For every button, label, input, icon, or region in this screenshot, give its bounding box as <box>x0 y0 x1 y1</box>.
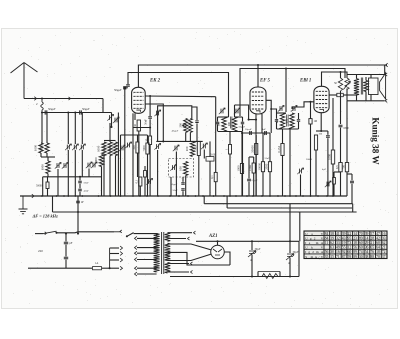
wire R9 up <box>262 133 264 162</box>
primary tap arrow 0 <box>135 236 137 240</box>
capacitor C7 <box>247 179 251 181</box>
junction EBL1 grid feed <box>309 101 311 103</box>
junction gnd rail cap2 <box>289 275 291 277</box>
capacitor IFT1 right <box>241 122 244 124</box>
wire anode to OT <box>343 94 354 96</box>
resistor R18 <box>345 163 348 172</box>
antenna A <box>11 63 38 99</box>
svg-text:55: 55 <box>342 246 346 250</box>
svg-text:1000: 1000 <box>34 144 38 151</box>
wire C10 down <box>327 138 329 196</box>
wire output top line <box>347 74 385 76</box>
svg-text:56: 56 <box>353 246 357 250</box>
svg-text:1000: 1000 <box>103 145 107 152</box>
selector contact arrow 2 <box>120 258 122 262</box>
svg-text:37: 37 <box>382 255 386 259</box>
trimmer IFT1 a <box>221 109 223 114</box>
wire primary tap 5 <box>137 273 157 275</box>
ground symbol chassis <box>19 196 28 214</box>
variable capacitor Cg1 tuning <box>81 145 83 150</box>
wire selector stub 1 <box>110 253 119 255</box>
junction bus 19 <box>223 195 225 197</box>
svg-text:7000: 7000 <box>142 145 146 152</box>
svg-text:60: 60 <box>359 241 363 245</box>
wire drop d2 <box>74 150 76 196</box>
svg-text:87: 87 <box>342 255 346 259</box>
svg-text:12: 12 <box>348 246 352 250</box>
wire right group feed <box>109 123 111 142</box>
trimmer CT6 <box>128 143 130 148</box>
wire tertiary bus <box>227 207 352 209</box>
wire HT bottom tap <box>168 254 212 261</box>
capacitor C17 50nF <box>148 117 152 119</box>
wire selector stub 2 <box>110 259 119 261</box>
heater arrow b <box>188 237 190 240</box>
svg-text:S mA/V: S mA/V <box>305 255 324 259</box>
svg-text:0,1µF: 0,1µF <box>252 179 259 182</box>
padder CP1 <box>175 146 177 151</box>
junction on RF rail 1 <box>41 111 43 113</box>
trimmer IFT2 a <box>280 106 282 111</box>
svg-text:28: 28 <box>370 237 374 241</box>
wire IFT2 capL bot <box>276 122 278 129</box>
wire field right <box>279 272 281 277</box>
wire EF5 cathode <box>255 114 257 196</box>
wire IFT2 sec to EBL1 <box>292 102 314 109</box>
wire IFT2 bottom drop <box>289 129 291 196</box>
wire AZ1 cathode up <box>217 241 219 245</box>
wire IFT1 capL top <box>217 117 219 122</box>
wire IFT1 capR to bus <box>242 132 244 197</box>
wire R27 down <box>333 184 335 196</box>
svg-text:300: 300 <box>178 123 182 128</box>
wire R15 down <box>340 91 342 124</box>
junction bus 24 <box>261 195 263 197</box>
wire C16 up <box>289 251 291 253</box>
wire anode to IFT2 <box>271 109 276 113</box>
wire R12 down <box>315 150 317 196</box>
wire heater line <box>53 211 357 213</box>
wire R6 down <box>198 156 200 197</box>
junction bus 16 <box>195 195 197 197</box>
wire EK2 grid top <box>125 87 128 89</box>
wire pot down <box>346 89 348 101</box>
selector dot <box>109 267 111 269</box>
tube EK2 <box>132 87 146 113</box>
heater arrow a <box>194 231 196 234</box>
primary tap arrow 4 <box>135 266 137 270</box>
svg-text:72: 72 <box>382 250 386 254</box>
wire EK2 grid drop <box>124 89 126 196</box>
wire IFT1 bottom drop b <box>229 154 231 196</box>
wire long drop 118 <box>117 113 119 197</box>
wire R1 top <box>47 177 49 182</box>
wire IFT1 top link R <box>235 116 243 118</box>
capacitor C11 6300 <box>339 125 343 127</box>
capacitor IFT2 left <box>275 120 278 122</box>
svg-text:84: 84 <box>325 237 329 241</box>
junction bus 32 <box>317 195 319 197</box>
junction row2 cap <box>79 176 81 178</box>
svg-text:50nF: 50nF <box>173 189 179 192</box>
svg-text:21: 21 <box>382 246 386 250</box>
wire primary tap 3 <box>137 259 157 261</box>
wire L4 bottom lead <box>109 156 111 197</box>
wire OT sec top lead <box>365 77 367 80</box>
variable capacitor Cg4b <box>121 146 123 151</box>
transformer T1 secondary heater AZ1 <box>165 233 171 242</box>
wire speaker top lead <box>370 75 372 79</box>
grid cap terminal EK2 <box>123 86 126 89</box>
junction B+ x290 <box>289 240 291 242</box>
wire C17 mid <box>149 119 151 136</box>
coil IFT1 secondary 100 <box>232 117 236 132</box>
junction bus 20 <box>229 195 231 197</box>
wire heater d <box>168 271 190 273</box>
svg-text:49: 49 <box>336 246 340 250</box>
primary tap arrow 2 <box>135 251 137 255</box>
junction bus 0 <box>41 195 43 197</box>
junction grid bias b <box>255 119 257 121</box>
wire input corner <box>102 99 104 113</box>
svg-text:70: 70 <box>359 232 363 236</box>
junction bus 5 <box>81 195 83 197</box>
coil L11 osc 300 <box>184 118 188 132</box>
wire col 176 <box>175 152 177 197</box>
wire IFT1 feed link <box>224 116 229 118</box>
coil L3 1000 <box>102 142 106 156</box>
wire R25 down <box>282 156 284 197</box>
svg-text:19: 19 <box>342 241 346 245</box>
heater arrow d <box>191 270 193 273</box>
wire R27 link <box>334 171 341 173</box>
wire R7 down <box>241 174 243 197</box>
wire R5 down <box>139 186 141 196</box>
svg-text:AZ1: AZ1 <box>208 234 218 239</box>
coil L10 100 <box>190 141 194 156</box>
arrow on antenna wire 2 <box>69 97 71 100</box>
svg-text:64: 64 <box>376 246 380 250</box>
fuse F1 <box>93 267 102 270</box>
junction col link <box>149 126 151 128</box>
junction bus 29 <box>295 195 297 197</box>
svg-text:59: 59 <box>348 255 352 259</box>
svg-text:45nF: 45nF <box>84 190 90 193</box>
wire R11 down <box>310 124 312 196</box>
svg-text:39: 39 <box>342 232 346 236</box>
wire selector stub 0 <box>110 247 119 249</box>
junction IFT2 feed <box>285 67 287 69</box>
junction bus 27 <box>284 195 286 197</box>
junction bus 31 <box>310 195 312 197</box>
wire RF input rail <box>42 112 112 114</box>
svg-text:38: 38 <box>365 255 369 259</box>
wire R3 up <box>137 135 139 142</box>
wire heater left end <box>52 196 54 212</box>
resistor R28 <box>144 171 147 178</box>
svg-text:50µµF: 50µµF <box>48 108 56 111</box>
wire B+ rail upper <box>240 69 345 117</box>
coil OT primary <box>354 79 359 95</box>
wire IFT1 bot link <box>218 131 243 133</box>
wire EK2 grid riser <box>128 73 229 118</box>
wire EBL1 anode side <box>329 94 337 96</box>
svg-text:70: 70 <box>376 255 380 259</box>
svg-text:89: 89 <box>353 255 357 259</box>
svg-text:62: 62 <box>382 241 386 245</box>
wire EK2 pin drop2 <box>132 113 134 196</box>
resistor R1 50000 <box>46 182 49 189</box>
junction bus 28 <box>289 195 291 197</box>
wire R24 down <box>255 155 257 197</box>
voltage selector column <box>109 248 111 268</box>
svg-text:1000: 1000 <box>97 145 101 152</box>
coil IFT2 secondary 100 <box>290 113 294 129</box>
svg-text:73: 73 <box>348 241 352 245</box>
svg-text:30: 30 <box>330 250 334 254</box>
IFT2 core <box>287 115 289 127</box>
svg-text:88: 88 <box>370 255 374 259</box>
trimmer CT5b <box>115 118 117 123</box>
junction bus 25 <box>269 195 271 197</box>
primary tap arrow 3 <box>135 258 137 262</box>
svg-text:95: 95 <box>348 237 352 241</box>
svg-text:1000: 1000 <box>41 164 45 171</box>
svg-text:50nF: 50nF <box>145 119 148 125</box>
wire heater c <box>168 263 190 265</box>
wire EK2 side2 <box>145 104 163 141</box>
wire R28 up <box>144 166 146 171</box>
junction bus 17 <box>202 195 204 197</box>
wire C12 top link <box>347 173 352 175</box>
wire R21 up <box>209 141 211 156</box>
resistor R23 <box>229 145 232 155</box>
wire row2 bottom <box>43 176 102 178</box>
wire C15 up <box>251 241 253 250</box>
trimmer CT9 <box>203 144 205 149</box>
resistor R5 <box>139 177 142 186</box>
svg-text:30: 30 <box>133 124 137 128</box>
transformer T1 secondary HT <box>165 243 171 260</box>
junction side1 tap <box>149 95 151 97</box>
IFT1 core <box>230 117 232 129</box>
trimmer CT5a <box>110 115 112 120</box>
resistor R6 7000 <box>197 141 200 155</box>
svg-text:89: 89 <box>359 237 363 241</box>
wire fuse to selector <box>102 267 110 269</box>
svg-text:47: 47 <box>376 232 380 236</box>
wire output top right end <box>384 65 386 75</box>
svg-text:54: 54 <box>365 250 369 254</box>
wire x299 drop <box>299 212 301 241</box>
oscillator coil dashed enclosure <box>169 159 194 178</box>
capacitor C21 50nF <box>78 181 82 183</box>
capacitor C19 mains filter <box>76 201 80 203</box>
wire bus2 right end join <box>352 204 354 212</box>
wire C17 down <box>149 145 151 197</box>
wire L6 top lead <box>47 157 49 161</box>
wire IFT1 sec top <box>234 105 236 117</box>
resistor R2 cathode EK2 <box>137 120 140 131</box>
junction bus 15 <box>187 195 189 197</box>
selector contact arrow 0 <box>120 246 122 250</box>
junction bus 14 <box>178 195 180 197</box>
wire OT primary top lead <box>356 75 358 79</box>
arrow feed end <box>386 63 388 67</box>
wire R7 up <box>241 133 243 164</box>
wire C12 up <box>351 174 353 180</box>
switch S1 mains <box>114 231 121 233</box>
junction R15 top <box>339 71 341 73</box>
wire R27 up <box>333 172 335 178</box>
wire mains top a <box>35 233 43 235</box>
resistor R7 <box>240 164 243 174</box>
wire antenna lead-in <box>24 98 103 100</box>
wire EK2 anode riser <box>138 65 387 87</box>
wire R2 bottom <box>138 131 140 196</box>
wire L2 bottom lead <box>46 153 48 157</box>
svg-text:50000: 50000 <box>251 145 255 153</box>
primary tap arrow 5 <box>135 272 137 276</box>
trimmer CT4 <box>88 163 90 168</box>
wire C13 up <box>65 234 67 242</box>
wire R17 down <box>340 172 342 196</box>
wire C15 down <box>251 255 253 277</box>
svg-text:EF 5: EF 5 <box>259 79 271 84</box>
svg-text:2000: 2000 <box>264 163 268 170</box>
svg-text:50µµF: 50µµF <box>245 128 252 131</box>
wire drop e <box>81 113 83 145</box>
switch S2 pivot <box>55 232 57 234</box>
wire right group top link <box>104 140 116 142</box>
svg-text:71: 71 <box>336 255 340 259</box>
coil OT secondary <box>364 80 368 91</box>
svg-text:60: 60 <box>376 241 380 245</box>
trimmer CT2 <box>74 145 76 150</box>
resistor R25 0,1M <box>281 144 284 156</box>
svg-text:21: 21 <box>370 241 374 245</box>
junction mains x78 <box>77 233 79 235</box>
svg-text:30: 30 <box>359 255 363 259</box>
wire x290 drop <box>289 204 291 251</box>
svg-text:19: 19 <box>330 237 334 241</box>
capacitor C4 50µµF <box>181 183 184 185</box>
transformer T1 core <box>162 232 164 274</box>
tube EF5 <box>250 87 266 114</box>
junction bus 7 <box>110 195 112 197</box>
resistor R9 <box>261 162 264 172</box>
junction x111 y127 <box>110 126 112 128</box>
wire IFT1 top link L <box>218 116 225 118</box>
svg-text:93: 93 <box>382 237 386 241</box>
resistor R17 <box>339 163 342 172</box>
wire L9 down <box>189 132 191 141</box>
svg-text:220: 220 <box>38 249 43 253</box>
svg-text:1000: 1000 <box>327 154 331 161</box>
junction gnd rail cap1 <box>251 275 253 277</box>
wire R13 down <box>332 164 334 196</box>
wire EF5 rc link <box>242 132 270 134</box>
junction on RF rail 3 <box>74 111 76 113</box>
svg-text:18: 18 <box>353 241 357 245</box>
wire x78 to bus <box>77 196 79 234</box>
wire IFT2 top L <box>277 112 287 114</box>
wire R18 up <box>346 101 348 163</box>
svg-text:1000: 1000 <box>94 157 98 164</box>
wire OT primary bottom lead <box>355 94 357 96</box>
wire OT sec bottom lead <box>365 92 367 101</box>
wire R24 up <box>255 135 257 144</box>
wire IFT1 sec to EF5 grid <box>235 105 249 120</box>
junction bus 3 <box>67 195 69 197</box>
resistor R22 AVC <box>214 172 217 181</box>
junction B+ cap1 <box>251 240 253 242</box>
junction cath <box>320 130 322 132</box>
svg-text:84: 84 <box>325 232 329 236</box>
transformer T1 secondary heater <box>165 262 171 273</box>
potentiometer wiper tone <box>327 182 329 187</box>
wire C11 down <box>340 128 342 163</box>
wire x299 to gnd rail <box>298 241 300 276</box>
wire EK2 side1 <box>145 95 216 98</box>
wire R1 bottom <box>47 189 49 197</box>
wire L1 bottom lead <box>40 153 42 157</box>
capacitor C8 4nF <box>265 131 267 135</box>
wire bus2 left end <box>203 196 205 204</box>
wire R22 up <box>215 97 217 173</box>
coil L7 1000 <box>99 155 103 167</box>
junction bus 22 <box>246 195 248 197</box>
junction bus 13 <box>169 195 171 197</box>
svg-text:32: 32 <box>336 237 340 241</box>
wire bus3 left end <box>226 196 228 208</box>
wire L3 bottom lead <box>103 156 105 197</box>
svg-text:18: 18 <box>376 250 380 254</box>
svg-text:63: 63 <box>330 246 334 250</box>
wire speaker bottom lead <box>370 95 372 101</box>
svg-text:30000: 30000 <box>257 162 261 170</box>
rectifier tube AZ1 <box>211 245 225 259</box>
svg-text:4nF: 4nF <box>262 128 267 131</box>
wire EBL1 cath link <box>316 130 328 132</box>
wire row2 left drop <box>42 177 44 196</box>
junction bus 6 <box>98 195 100 197</box>
wire primary tap 1 <box>137 247 157 249</box>
svg-text:EBl 1: EBl 1 <box>299 79 311 84</box>
svg-text:92: 92 <box>342 250 346 254</box>
svg-text:22: 22 <box>348 232 352 236</box>
svg-text:43: 43 <box>342 237 346 241</box>
svg-text:100: 100 <box>275 118 279 123</box>
resistor R10 <box>268 162 271 172</box>
svg-text:36: 36 <box>365 246 369 250</box>
svg-text:100: 100 <box>178 166 182 171</box>
wire osc top link <box>158 106 192 142</box>
coil L1 1000 <box>39 143 43 153</box>
wire CT4 stem <box>88 169 90 177</box>
resistor R24 <box>255 144 258 155</box>
coil L2 1000 <box>45 143 49 153</box>
wire output bottom line <box>347 100 385 102</box>
resistor R21 5100 <box>206 157 214 162</box>
wire to EK2 grid column <box>111 113 113 128</box>
wire IFT2 capL top <box>276 113 278 119</box>
junction bus 23 <box>252 195 254 197</box>
capacitor C18 padder <box>195 121 198 123</box>
arrow on bus <box>32 194 34 198</box>
variable capacitor Cg3 <box>93 163 95 168</box>
capacitor IFT2 right <box>297 120 300 122</box>
